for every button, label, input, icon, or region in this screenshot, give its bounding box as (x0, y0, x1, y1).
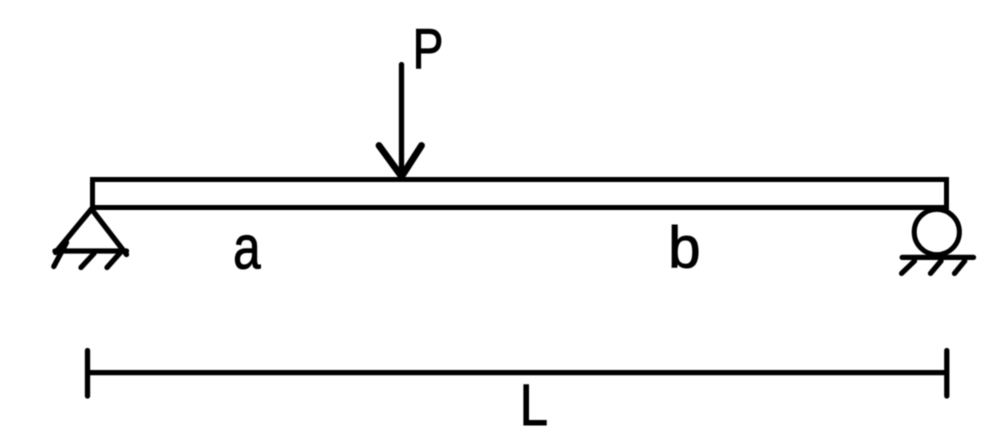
dimension line L (88, 370, 947, 375)
load arrow P head (379, 146, 422, 177)
label a (233, 214, 261, 282)
svg-text:a: a (233, 214, 261, 282)
pin support triangle left side (56, 209, 92, 253)
label P (413, 16, 444, 80)
label L (520, 373, 548, 438)
dimension left tick (85, 351, 90, 397)
pin support triangle right side (92, 209, 127, 255)
dimension right tick (944, 351, 949, 397)
roller support ground line (902, 255, 973, 260)
roller support hatch 3 (955, 261, 965, 273)
label b (668, 216, 700, 281)
svg-text:b: b (668, 216, 700, 281)
roller support hatch 2 (931, 261, 942, 273)
roller support hatch 1 (902, 261, 915, 273)
pin support hatch 3 (107, 253, 120, 268)
pin support base line (55, 248, 127, 253)
load arrow P shaft (399, 65, 404, 177)
roller support circle (914, 209, 959, 254)
pin support hatch 1 (54, 243, 67, 267)
svg-text:P: P (413, 16, 444, 80)
beam (93, 180, 947, 208)
pin support hatch 2 (81, 254, 94, 268)
svg-text:L: L (520, 373, 548, 438)
